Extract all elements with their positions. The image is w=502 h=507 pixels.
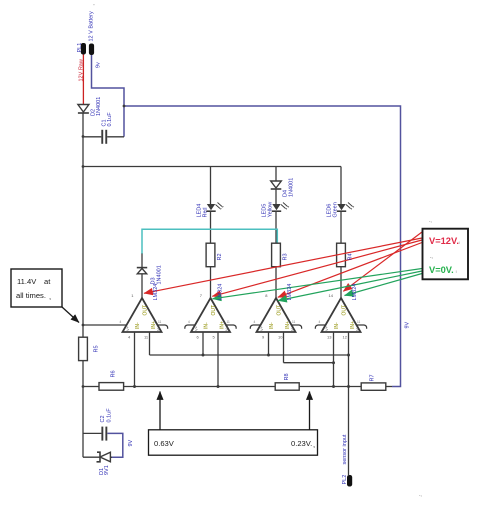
svg-text:0.23V.: 0.23V. [291, 439, 312, 448]
svg-text:LM324: LM324 [153, 284, 159, 301]
svg-text:R4: R4 [348, 253, 354, 260]
svg-text:0.1uF: 0.1uF [107, 408, 113, 423]
svg-text:9V1: 9V1 [104, 465, 110, 475]
svg-text:9V: 9V [405, 321, 411, 328]
svg-text:ı: ı [456, 269, 457, 274]
svg-text:1N4001: 1N4001 [289, 178, 295, 197]
svg-text:13: 13 [327, 335, 332, 340]
svg-text:all times.: all times. [16, 291, 46, 300]
svg-text:LM324: LM324 [352, 284, 358, 301]
svg-text:10: 10 [278, 335, 283, 340]
svg-text:12V Raw: 12V Raw [79, 59, 85, 81]
svg-text:R7: R7 [370, 374, 376, 381]
svg-text:LM324: LM324 [218, 284, 224, 301]
svg-text:R6: R6 [111, 370, 117, 377]
svg-text:ı: ı [459, 240, 460, 245]
svg-text:V=12V.: V=12V. [429, 236, 459, 246]
svg-text:PL2: PL2 [342, 475, 348, 485]
svg-text:9V: 9V [128, 439, 134, 446]
svg-text:14: 14 [329, 293, 334, 298]
svg-text:R5: R5 [94, 345, 100, 352]
svg-text:.,: ., [429, 218, 432, 224]
svg-text:12 V Battery: 12 V Battery [88, 11, 94, 42]
svg-text:R2: R2 [217, 253, 223, 260]
svg-text:at: at [44, 277, 51, 286]
svg-text:0.63V: 0.63V [154, 439, 175, 448]
svg-text:0.1uF: 0.1uF [107, 112, 113, 127]
svg-text:PL1: PL1 [77, 43, 83, 53]
svg-text:,: , [313, 440, 315, 449]
svg-text:11.4V: 11.4V [17, 277, 37, 286]
svg-text:.,: ., [419, 492, 422, 498]
svg-text:9v: 9v [96, 62, 102, 68]
svg-text:C2: C2 [100, 415, 106, 422]
svg-text:.,: ., [430, 254, 433, 260]
svg-text:R8: R8 [284, 373, 290, 380]
svg-text:1N4001: 1N4001 [157, 265, 163, 284]
svg-text:12: 12 [343, 335, 348, 340]
svg-text:V=0V.: V=0V. [429, 265, 454, 275]
svg-text:Green: Green [333, 202, 339, 217]
svg-text:R3: R3 [283, 253, 289, 260]
svg-text:1N4001: 1N4001 [96, 97, 102, 116]
svg-text:,: , [49, 292, 51, 301]
svg-text:': ' [94, 4, 95, 10]
svg-text:Red: Red [203, 207, 209, 217]
svg-text:LM324: LM324 [287, 284, 293, 301]
svg-text:Yellow: Yellow [268, 202, 274, 218]
svg-text:sensor input: sensor input [342, 434, 348, 464]
